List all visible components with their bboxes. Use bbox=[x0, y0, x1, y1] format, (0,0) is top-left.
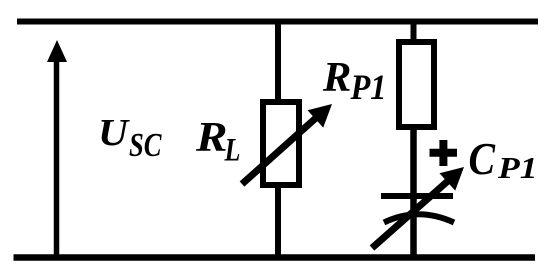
svg-text:R: R bbox=[195, 115, 228, 161]
svg-text:R: R bbox=[322, 55, 352, 101]
svg-text:C: C bbox=[469, 133, 497, 184]
svg-text:P1: P1 bbox=[497, 150, 538, 185]
svg-text:P1: P1 bbox=[350, 67, 387, 107]
svg-text:L: L bbox=[224, 132, 241, 168]
svg-text:SC: SC bbox=[129, 127, 162, 164]
svg-text:U: U bbox=[98, 112, 130, 154]
